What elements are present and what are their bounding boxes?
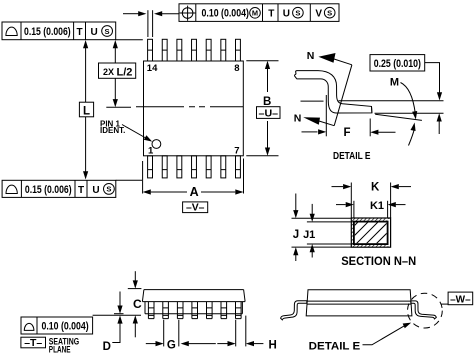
svg-text:F: F: [343, 127, 350, 139]
svg-text:L: L: [83, 105, 90, 117]
dimension G: [146, 320, 216, 352]
dimension K1: [353, 201, 355, 218]
svg-text:B: B: [263, 96, 271, 108]
svg-text:7: 7: [234, 146, 239, 157]
svg-text:L/2: L/2: [117, 66, 133, 78]
feature control frame FCF1 top-left: profile 0.15 (0.006) T U S: [2, 22, 116, 40]
pin 1 ident circle: [152, 140, 161, 149]
svg-text:U: U: [283, 9, 290, 20]
svg-text:0.10 (0.004): 0.10 (0.004): [42, 321, 89, 333]
svg-text:S: S: [105, 27, 110, 36]
feature control frame FCF3 bottom-left: profile 0.15 (0.006) T U S: [2, 180, 116, 197]
reference line right lower: [375, 112, 444, 114]
dimension F: [325, 95, 327, 136]
svg-text:PLANE: PLANE: [49, 344, 71, 354]
dimension C: [128, 271, 142, 337]
svg-text:–U–: –U–: [259, 108, 279, 120]
datum -V- box: [183, 202, 208, 214]
side view left lead: [281, 301, 307, 320]
datum L dimension with boxed L: [79, 40, 93, 180]
dimension K: [350, 183, 352, 219]
end view leads x7: [148, 302, 241, 319]
dimension H: [217, 316, 276, 352]
section cut line N-N: [334, 65, 352, 126]
svg-text:14: 14: [147, 63, 158, 74]
svg-text:–V–: –V–: [186, 202, 205, 214]
seating plane flatness frame 0.10 (0.004): [21, 317, 93, 334]
svg-text:H: H: [268, 339, 276, 351]
FCF2 leader to pin 14 width: [123, 10, 179, 37]
svg-text:J1: J1: [303, 229, 315, 241]
svg-text:C: C: [133, 297, 142, 311]
svg-text:T: T: [268, 9, 274, 20]
svg-text:DETAIL E: DETAIL E: [309, 340, 361, 352]
svg-text:G: G: [167, 339, 176, 351]
svg-text:0.25 (0.010): 0.25 (0.010): [374, 58, 422, 70]
seating plane line: [93, 314, 141, 316]
SEATING PLANE label: [49, 337, 79, 355]
datum -T- box: [21, 337, 46, 349]
side view right lead: [411, 301, 437, 319]
datum line from FCF1 to pins (pin tip level): [116, 39, 143, 41]
svg-text:0.15 (0.006): 0.15 (0.006): [24, 26, 71, 38]
svg-text:IDENT.: IDENT.: [100, 126, 125, 135]
bottom pins row (pins 1-7): [148, 156, 241, 178]
DETAIL E enlarged lead: [294, 50, 444, 162]
svg-text:–T–: –T–: [24, 337, 42, 349]
reference line right upper: [339, 100, 444, 102]
svg-text:0.15 (0.006): 0.15 (0.006): [25, 184, 72, 196]
PIN 1 IDENT. label and leader: [100, 120, 154, 144]
dimension D: [103, 292, 124, 354]
N arrow bottom: [303, 117, 320, 125]
svg-text:8: 8: [234, 63, 239, 74]
svg-text:A: A: [190, 185, 199, 199]
lead outline: [297, 71, 372, 113]
datum -U- box: [257, 107, 281, 120]
SECTION N-N lead cross-section: [292, 182, 417, 268]
feature control frame FCF2 top: position 0.10 (0.004) M T U S V S: [179, 4, 339, 22]
svg-text:–W–: –W–: [450, 294, 471, 305]
svg-text:0.10 (0.004): 0.10 (0.004): [202, 8, 250, 20]
svg-text:M: M: [390, 76, 399, 88]
svg-text:U: U: [92, 185, 99, 196]
0.25 (0.010) boxed dimension: [370, 55, 425, 71]
end view body: [142, 290, 245, 314]
svg-text:2X: 2X: [103, 67, 114, 77]
svg-text:S: S: [327, 9, 332, 18]
svg-text:N: N: [307, 50, 315, 62]
svg-text:N: N: [294, 113, 302, 125]
dimension A: [143, 159, 244, 199]
svg-text:V: V: [315, 9, 322, 20]
dimension J1: [307, 221, 354, 223]
svg-text:U: U: [90, 27, 97, 38]
svg-text:S: S: [295, 9, 300, 18]
datum line from FCF3 to bottom pin tips: [116, 179, 142, 181]
svg-text:J: J: [293, 229, 299, 241]
dimension B: [246, 61, 278, 156]
svg-text:SECTION N–N: SECTION N–N: [341, 256, 416, 268]
svg-text:M: M: [252, 9, 258, 18]
svg-text:D: D: [103, 341, 111, 353]
top pins row (pins 14-8): [148, 39, 241, 61]
svg-text:DETAIL E: DETAIL E: [333, 150, 371, 162]
detail E dashed circle: [408, 293, 443, 328]
DETAIL E label bottom with leader: [309, 320, 413, 352]
svg-text:T: T: [78, 185, 84, 196]
package body plan view: [144, 61, 244, 156]
dimension J: [292, 217, 352, 219]
side view body: [306, 290, 412, 316]
svg-text:K1: K1: [370, 200, 384, 212]
svg-text:T: T: [77, 27, 83, 38]
2X L/2 dimension: [99, 40, 136, 107]
reference line left: [301, 100, 324, 102]
svg-text:K: K: [371, 182, 380, 194]
connector line to -W- box: [441, 303, 448, 305]
datum -W- box: [448, 292, 473, 305]
sloped toe line (angle M): [375, 114, 422, 120]
svg-text:S: S: [106, 185, 111, 194]
break squiggle at arm left end: [294, 71, 296, 79]
body center line (dashed): [136, 106, 243, 108]
N arrow top: [318, 53, 335, 63]
